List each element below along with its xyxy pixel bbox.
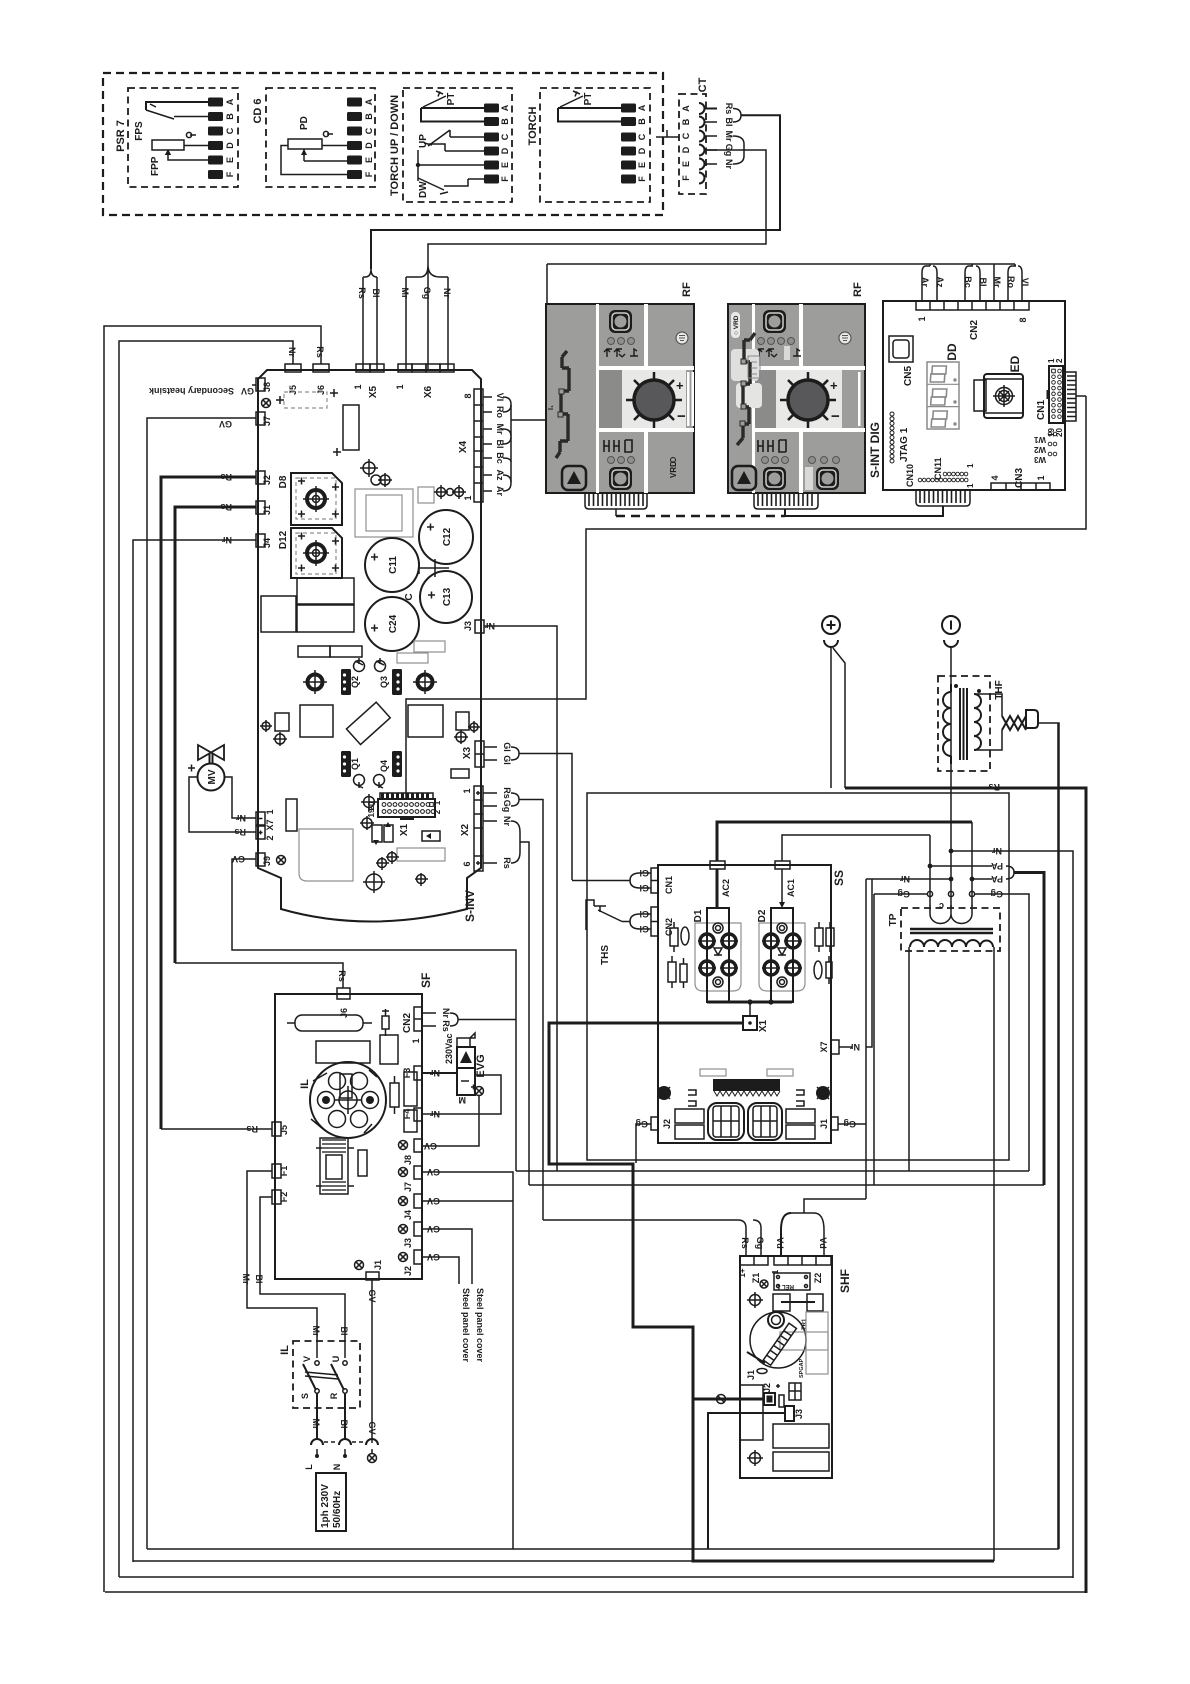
leds (4) [758, 338, 765, 345]
svg-text:X6: X6 [423, 385, 434, 398]
svg-text:DD: DD [945, 343, 959, 361]
wires Z2 Vd pair [781, 1213, 791, 1256]
svg-text:Nr: Nr [850, 1042, 860, 1052]
svg-text:1+: 1+ [738, 1268, 747, 1277]
potentiometer FPP [150, 132, 208, 176]
svg-text:Rs: Rs [315, 346, 325, 358]
svg-text:F: F [364, 171, 374, 177]
board S-INV outline [258, 370, 481, 922]
svg-text:D: D [225, 142, 235, 149]
wire J2 heavy down [693, 1399, 994, 1561]
transistor Q4 [392, 751, 402, 777]
diode module D2 [757, 908, 805, 1002]
waveform graphic with boxes [731, 349, 759, 381]
svg-text:+: + [830, 378, 838, 393]
corner screws [657, 1086, 671, 1100]
svg-text:GV: GV [367, 1421, 377, 1434]
svg-text:8: 8 [463, 393, 473, 398]
svg-text:Q1: Q1 [350, 758, 360, 770]
bent pins [688, 1090, 804, 1106]
wire CT-C Mr [705, 135, 718, 137]
switch PT (torch) [558, 91, 621, 122]
connector J5 (SF left) [272, 1122, 281, 1136]
svg-text:J8: J8 [403, 1155, 413, 1165]
long pad [397, 848, 445, 861]
svg-text:CN1: CN1 [1036, 400, 1047, 420]
relay REL1 [774, 1273, 810, 1290]
svg-text:J3: J3 [403, 1238, 413, 1248]
svg-text:CN2: CN2 [969, 320, 980, 340]
svg-text:Vd: Vd [818, 1237, 828, 1249]
svg-text:EVG: EVG [475, 1054, 487, 1077]
svg-text:Gl: Gl [502, 742, 512, 752]
leds bottom mid [762, 457, 769, 464]
svg-text:Nr: Nr [900, 874, 910, 884]
svg-text:GV: GV [427, 1196, 440, 1206]
svg-text:J6: J6 [316, 385, 326, 395]
fuse F2 [272, 1190, 281, 1204]
panel RF1 body [546, 304, 694, 493]
svg-text:1: 1 [353, 384, 363, 389]
7seg icons bottom zone [604, 440, 632, 452]
svg-text:Nr: Nr [287, 347, 297, 357]
heatsink pad [308, 675, 323, 690]
connector J6 (SF top) [337, 988, 350, 999]
svg-text:TORCH: TORCH [527, 106, 539, 145]
heatsink pad [418, 675, 433, 690]
svg-text:J3: J3 [463, 621, 473, 631]
svg-text:DW: DW [418, 181, 429, 198]
svg-text:E: E [637, 162, 647, 168]
svg-text:CN5: CN5 [903, 366, 914, 386]
capacitor C12 [419, 510, 473, 564]
svg-text:C12: C12 [442, 527, 453, 546]
svg-text:1: 1 [463, 495, 473, 500]
svg-text:S: S [300, 1393, 310, 1399]
svg-text:CT: CT [697, 77, 709, 92]
connector J7 (left edge) [256, 412, 265, 425]
svg-text:Bl: Bl [724, 118, 734, 127]
connector AC2 [710, 861, 725, 869]
svg-text:CN3: CN3 [1014, 468, 1025, 488]
svg-text:Nr: Nr [502, 816, 512, 826]
svg-text:N: N [332, 1464, 342, 1471]
svg-text:2: 2 [1055, 358, 1064, 363]
svg-text:J1: J1 [373, 1260, 383, 1270]
wire CN1 to ribbon [1076, 395, 1086, 397]
triangle button [732, 466, 756, 490]
svg-text:Nr: Nr [441, 1008, 451, 1018]
TP primary U loops [930, 905, 972, 924]
diode module D8 [278, 473, 342, 525]
leds [608, 338, 615, 345]
svg-text:Rs: Rs [988, 782, 1000, 792]
diode module D1 [693, 908, 741, 1002]
wire mid bus 2 [529, 1184, 1044, 1186]
svg-text:J7: J7 [262, 416, 272, 426]
svg-text:X3: X3 [462, 746, 473, 759]
svg-text:D: D [637, 147, 647, 154]
svg-text:PT: PT [446, 93, 457, 106]
capacitor C13 [420, 571, 472, 623]
capacitor C24 [365, 597, 419, 651]
main transformer [355, 489, 413, 537]
screws [760, 1280, 768, 1288]
wire J2 Rs [161, 477, 256, 1129]
wire Nr bottom bus [133, 1560, 693, 1562]
svg-text:THS: THS [600, 945, 611, 965]
svg-text:D2: D2 [757, 909, 768, 922]
svg-text:TORCH UP / DOWN: TORCH UP / DOWN [389, 95, 401, 196]
svg-text:X5: X5 [368, 385, 379, 398]
svg-text:UP: UP [418, 134, 429, 148]
svg-text:IL: IL [299, 1079, 311, 1089]
svg-text:PD: PD [299, 116, 310, 130]
svg-text:J8: J8 [262, 382, 272, 392]
potentiometer PD [281, 116, 347, 174]
mode icons [756, 349, 801, 357]
svg-text:Rs: Rs [220, 502, 232, 512]
svg-text:FPS: FPS [134, 121, 145, 141]
rotated rect component [346, 702, 390, 744]
svg-text:PA: PA [991, 874, 1003, 884]
HF transformer THF [938, 676, 1005, 771]
mode icons [604, 349, 638, 357]
connector J9 (left edge) [256, 853, 265, 866]
wire J4 Nr [133, 540, 256, 1562]
wire S Mr down [316, 1393, 318, 1440]
svg-text:8: 8 [1018, 317, 1028, 322]
svg-text:TR1: TR1 [802, 1318, 808, 1330]
relay (vertical rect) [343, 405, 359, 450]
wire PA upper [930, 865, 992, 867]
wire X4 harness to CN2 of S-INT DIG [503, 264, 1015, 491]
svg-text:1: 1 [395, 384, 405, 389]
transistor Q3 [392, 669, 402, 695]
wires X2 Nr/Rs pair [483, 821, 497, 863]
svg-text:Gl: Gl [639, 883, 649, 893]
wires X2 Rs/Gg pair [483, 793, 497, 806]
connector TORCH box [540, 88, 650, 202]
card edge connector RF1 [585, 493, 647, 509]
CD6 pins A-F [347, 98, 374, 180]
svg-text:D8: D8 [278, 475, 289, 488]
chassis enclosure box (SS/TP assembly) [587, 793, 1009, 1160]
panel RF2 body [728, 304, 865, 493]
connector J8 (SF right) [414, 1139, 422, 1152]
wire Nr left row [866, 878, 951, 880]
svg-text:1: 1 [966, 483, 975, 488]
svg-text:J7: J7 [403, 1182, 413, 1192]
transistor Q2 [341, 669, 351, 695]
svg-text:D1: D1 [693, 909, 704, 922]
svg-text:Mr: Mr [724, 131, 734, 142]
svg-text:X2: X2 [460, 823, 471, 836]
knob zone [622, 370, 686, 428]
wire Gg right [975, 894, 1029, 1171]
earth symbol [676, 332, 688, 344]
wire J8 GV / Secondary heatsink [252, 384, 256, 386]
svg-text:ED: ED [1008, 355, 1022, 372]
waveform graphic [556, 351, 569, 458]
svg-text:Z2: Z2 [813, 1273, 823, 1284]
svg-text:Mr: Mr [311, 1419, 321, 1430]
fuse F4 [414, 1108, 422, 1121]
svg-text:X4: X4 [458, 440, 469, 453]
svg-text:Steel panel cover: Steel panel cover [461, 1288, 471, 1363]
jumpers W1 W2 W3 [1033, 432, 1056, 464]
wires CN2 Nr/Rs [422, 1013, 436, 1026]
svg-text:1: 1 [265, 809, 275, 814]
svg-text:X7: X7 [265, 819, 275, 830]
wire CT-A Rs [705, 108, 718, 110]
connector J6 (top edge) [313, 364, 329, 372]
switch DW [418, 178, 484, 198]
wire I terminal down to TP [950, 647, 952, 908]
svg-text:U: U [331, 1356, 341, 1363]
svg-text:E: E [225, 157, 235, 163]
svg-text:A: A [637, 104, 647, 111]
TP core bars [910, 929, 993, 933]
svg-text:Mr: Mr [400, 288, 410, 299]
wire X7-2 Rs to fan [189, 777, 256, 832]
ribbon header (SS bottom) [700, 1069, 793, 1096]
screw pads bottom [378, 859, 387, 868]
svg-text:J2: J2 [662, 1119, 672, 1129]
terminal X1 (SS) [743, 1016, 757, 1030]
TP primary legs [930, 822, 972, 906]
svg-text:Steel panel cover: Steel panel cover [475, 1288, 485, 1363]
encoder ED [974, 355, 1023, 418]
CN2 pin wires [920, 264, 1030, 301]
svg-text:Secondary heatsink: Secondary heatsink [148, 386, 234, 396]
svg-text:Q3: Q3 [379, 676, 389, 688]
svg-text:J9: J9 [262, 856, 272, 866]
svg-text:C13: C13 [442, 587, 453, 606]
svg-text:J3: J3 [794, 1409, 804, 1419]
crosshairs near X1 [364, 797, 375, 808]
small led parts [372, 825, 382, 842]
svg-text:PT: PT [583, 93, 594, 106]
svg-text:W3: W3 [1033, 455, 1046, 464]
svg-text:E: E [500, 162, 510, 168]
connector CN3 (bottom) [990, 468, 1050, 490]
wire X1 heavy to SHF J2 [549, 1023, 764, 1399]
svg-text:GV: GV [367, 1289, 377, 1302]
svg-text:C11: C11 [388, 556, 399, 574]
pads with link [773, 1294, 790, 1311]
snubber parts left [670, 928, 678, 946]
svg-text:GV: GV [219, 419, 232, 429]
wire RF2 to S-INT CN10 [785, 506, 943, 516]
svg-text:B: B [681, 118, 691, 125]
svg-text:J6: J6 [339, 1008, 349, 1018]
7seg icons bottom [758, 440, 786, 452]
connector J3 (right edge) [475, 620, 484, 633]
misc rects SHF bottom [806, 1312, 828, 1374]
leds bottom [608, 457, 615, 464]
svg-text:E: E [364, 157, 374, 163]
svg-text:c: c [939, 901, 944, 911]
wire Gg left [874, 893, 927, 895]
connector PSR 7 box [128, 88, 238, 187]
X4 pin wires with labels [483, 393, 505, 497]
connector J5 (top edge) [285, 364, 301, 372]
cap balance link [419, 559, 449, 577]
svg-text:C: C [404, 593, 415, 600]
big pad outline [299, 829, 353, 881]
connector J8 (left edge) [256, 378, 265, 391]
connector J2 (SHF) [764, 1393, 775, 1405]
DC bus + X1 terminal [707, 1001, 792, 1004]
svg-text:D: D [364, 142, 374, 149]
svg-text:1: 1 [917, 316, 927, 321]
svg-text:V: V [302, 1356, 312, 1362]
svg-text:D12: D12 [278, 530, 289, 549]
svg-text:1: 1 [433, 800, 442, 805]
display DD (3 digit) [927, 343, 959, 429]
node E common [418, 164, 484, 166]
svg-text:Bl: Bl [371, 289, 381, 298]
svg-text:Rs: Rs [337, 970, 347, 982]
svg-text:CN1: CN1 [664, 876, 674, 894]
svg-text:VRD: VRD [669, 461, 678, 478]
svg-text:JTAG 1: JTAG 1 [899, 427, 910, 462]
wire F1 Mr to switch [247, 1171, 317, 1358]
wire J7 GV [147, 418, 256, 1549]
wire J9 GV [232, 859, 516, 1171]
svg-text:1: 1 [1036, 475, 1046, 480]
svg-text:C: C [500, 133, 510, 140]
svg-text:AC1: AC1 [786, 879, 796, 897]
svg-text:C: C [364, 127, 374, 134]
wire AC2 feed [717, 822, 972, 861]
svg-text:2: 2 [433, 809, 442, 814]
svg-text:Rs: Rs [441, 1020, 451, 1032]
knob zone [776, 370, 842, 428]
svg-text:SF: SF [419, 973, 433, 988]
wire X1 ribbon to S-INT CN1 [406, 396, 1086, 799]
svg-text:Gl: Gl [502, 755, 512, 765]
dashed ribbon link RF1-RF2 [616, 515, 785, 518]
svg-text:GV: GV [424, 1141, 437, 1151]
wire J3 Nr [484, 626, 557, 1171]
svg-text:PA: PA [991, 861, 1003, 871]
svg-text:SPGAP: SPGAP [799, 1358, 805, 1378]
connector CD 6 box [266, 88, 375, 187]
svg-text:F: F [681, 175, 691, 181]
svg-text:Rs: Rs [724, 103, 734, 115]
svg-text:Nr: Nr [485, 621, 495, 631]
remote group outer dashed box [103, 73, 663, 215]
connector X5 [356, 364, 370, 372]
switch contacts [300, 1356, 347, 1400]
svg-text:X7: X7 [819, 1041, 829, 1052]
svg-text:Nr: Nr [442, 288, 452, 298]
tall rect near X7 [286, 799, 297, 831]
svg-text:GV: GV [427, 1252, 440, 1262]
svg-text:Bl: Bl [339, 1420, 349, 1429]
svg-text:J4: J4 [262, 538, 272, 548]
CT socket pins A-F [681, 103, 705, 184]
wire Nr mid bus [516, 1170, 1029, 1172]
svg-text:−: − [677, 408, 686, 425]
svg-text:J5: J5 [288, 385, 298, 395]
board SF outline [275, 994, 422, 1279]
svg-text:Rs: Rs [740, 1237, 750, 1249]
svg-text:2: 2 [265, 835, 275, 840]
svg-text:Rs: Rs [357, 287, 367, 299]
valve earth to J8 [422, 1096, 479, 1146]
svg-text:MV: MV [207, 769, 218, 784]
wire J6 Rs from J1 of S-INV [175, 963, 343, 988]
svg-text:GV: GV [427, 1224, 440, 1234]
button (top) [609, 310, 632, 333]
wire PA lower [972, 878, 992, 880]
svg-text:○ VRD: ○ VRD [733, 315, 740, 335]
connector J2 (SS left) [651, 1117, 658, 1130]
svg-text:J2: J2 [262, 475, 272, 485]
connector CN2 (SF right) [414, 1007, 422, 1031]
svg-text:Gg: Gg [755, 1237, 765, 1250]
junction dots [949, 849, 954, 854]
connector CN5 [889, 336, 913, 362]
misc rects left-mid [261, 596, 296, 632]
svg-text:B: B [500, 118, 510, 125]
connector X6 [398, 364, 412, 372]
small parts left [275, 713, 289, 731]
svg-text:B: B [225, 113, 235, 120]
choke toroid IL [299, 1062, 386, 1138]
bottom right leds + button [809, 457, 816, 464]
svg-text:Nr: Nr [430, 1109, 440, 1119]
connector X7 (left edge) [256, 812, 265, 825]
capacitor C11 [365, 538, 419, 592]
svg-text:CN2: CN2 [664, 918, 674, 936]
PSR7 pins A-F [208, 98, 235, 180]
svg-text:F1: F1 [279, 1166, 289, 1177]
filter choke cylinder [295, 1015, 363, 1031]
svg-text:E: E [681, 161, 691, 167]
svg-text:PSR 7: PSR 7 [115, 120, 127, 152]
svg-text:IL: IL [279, 1345, 291, 1355]
PA pair brace [1006, 866, 1014, 879]
svg-text:Nr: Nr [236, 813, 246, 823]
TP secondary winding [910, 940, 993, 947]
wire GV bottom bus [147, 723, 1058, 1549]
svg-text:CN10: CN10 [905, 464, 915, 487]
thermostat THS [622, 921, 630, 923]
connector J4 (SF right) [414, 1194, 422, 1208]
svg-text:Gg: Gg [844, 1119, 857, 1129]
svg-text:R: R [329, 1392, 339, 1399]
TORCH pins A-F [621, 104, 647, 184]
svg-text:A: A [500, 104, 510, 111]
svg-text:Gg: Gg [898, 889, 911, 899]
svg-text:I₁: I₁ [548, 405, 555, 410]
connector CN2 (top) [916, 301, 1029, 340]
svg-text:C: C [225, 127, 235, 134]
switch PT (torch up/down) [421, 91, 484, 122]
svg-text:D: D [681, 146, 691, 153]
connector Z1 [740, 1256, 768, 1265]
HF transformer TR1 [747, 1312, 828, 1374]
connector X4 (right edge) [458, 389, 483, 502]
wire R Bl down [344, 1393, 346, 1440]
svg-text:A: A [225, 98, 235, 105]
connector AC1 [775, 861, 790, 869]
svg-text:RF: RF [852, 282, 864, 297]
